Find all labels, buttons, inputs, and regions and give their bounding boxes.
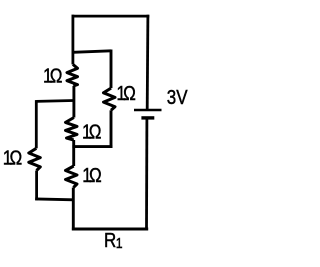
resistor R1d 1ohm (far-left column resistor) [29, 148, 41, 170]
label 1 ohm for resistor R1e [82, 164, 102, 187]
resistor R1b 1ohm (inner column resistor) [104, 88, 116, 110]
svg-text:1Ω: 1Ω [116, 82, 136, 105]
label 1 ohm for resistor R1c [82, 120, 102, 143]
wire: inner top wire from left column to inner column [73, 51, 111, 53]
battery B1 positive plate (long thin) [134, 109, 162, 111]
wire: left column segment between R1a and R1c [72, 86, 75, 118]
wire: top wire from left column to battery branch [72, 15, 150, 18]
wire: far-left column lower segment [35, 171, 38, 201]
svg-text:1Ω: 1Ω [3, 146, 23, 169]
svg-text:1: 1 [116, 235, 123, 251]
resistor R1c 1ohm (middle resistor on left column) [66, 118, 78, 141]
svg-text:1Ω: 1Ω [82, 164, 102, 187]
battery B1 negative plate (short thick) [141, 116, 154, 119]
label R1 equivalent resistance under bottom wire [104, 229, 116, 252]
wire: left column bottom segment down to bottom wire [72, 188, 75, 231]
svg-text:1Ω: 1Ω [82, 120, 102, 143]
label 1 ohm for resistor R1a [43, 64, 63, 87]
wire: inner column upper segment [110, 50, 113, 89]
label 1 ohm for resistor R1b [116, 82, 136, 105]
wire: left column upper segment (node A down to first resistor) [72, 15, 75, 65]
resistor R1e 1ohm (lower resistor on left column) [66, 166, 78, 188]
wire: right column lower segment from battery negative plate to bottom wire [145, 119, 148, 231]
wire: right column upper segment from top wire to battery positive plate [146, 15, 149, 110]
label 1 ohm for resistor R1d [3, 146, 23, 169]
wire: inner column lower segment [110, 110, 113, 146]
wire: mid junction wire joining inner column to left column [72, 145, 112, 148]
svg-text:R: R [104, 229, 116, 252]
label 3V battery voltage [167, 86, 188, 109]
resistor R1a 1ohm (upper resistor on left column) [67, 64, 78, 86]
wire: far-left branch top wire [36, 99, 74, 103]
wire: bottom return wire [72, 228, 148, 231]
wire: left column segment between R1c and R1e [72, 140, 75, 166]
svg-text:3V: 3V [167, 86, 188, 109]
wire: far-left branch bottom wire [35, 197, 74, 201]
wire: far-left column upper segment [35, 100, 38, 148]
label R1 subscript 1 [116, 235, 123, 251]
svg-text:1Ω: 1Ω [43, 64, 63, 87]
